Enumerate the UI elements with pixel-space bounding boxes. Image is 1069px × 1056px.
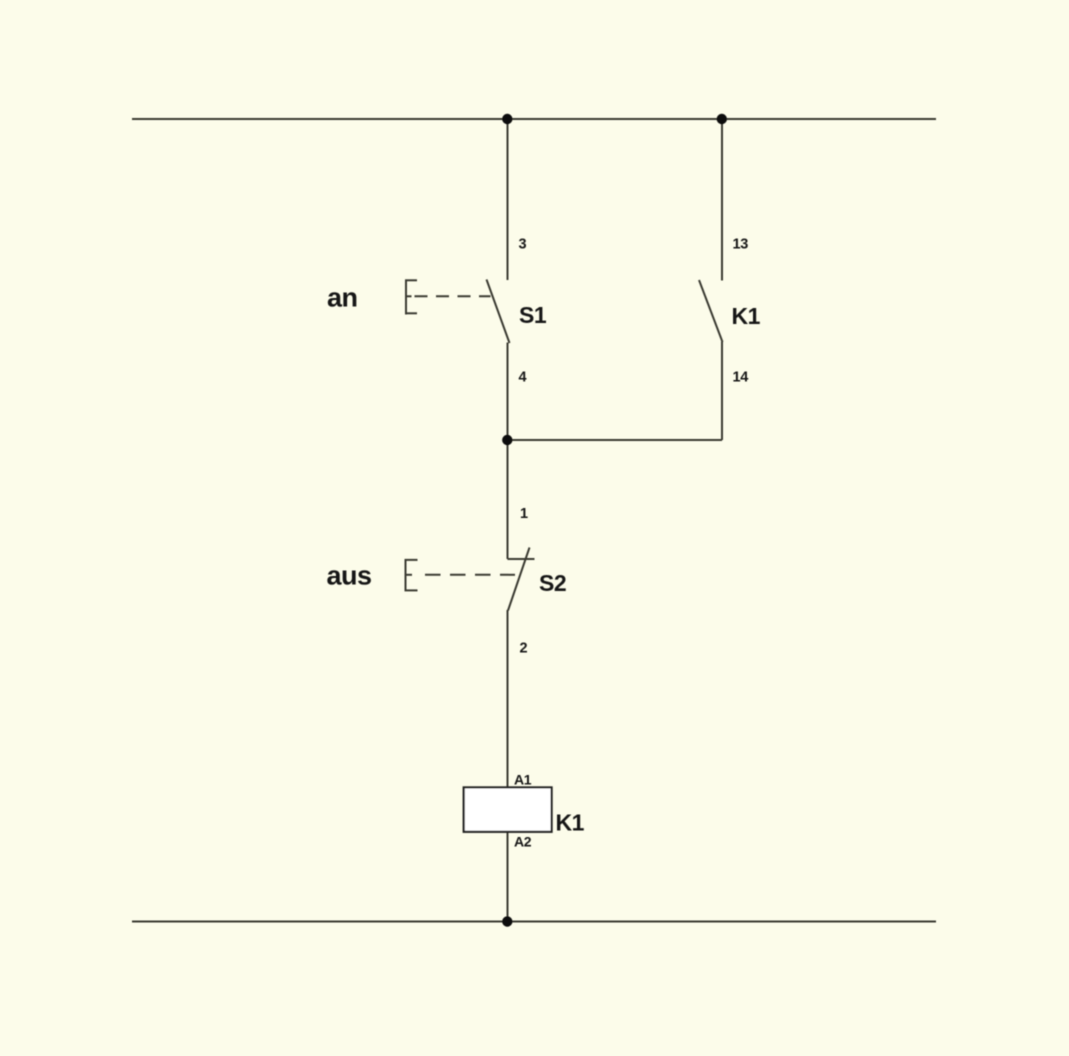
wire: node down to S2 pin 1: [507, 440, 509, 559]
svg-text:3: 3: [519, 237, 527, 253]
svg-text:A1: A1: [514, 772, 532, 788]
node: junction S1+K1 branches: [502, 435, 512, 445]
wire: S2 pin 2 down to coil A1: [507, 610, 509, 788]
svg-text:14: 14: [733, 370, 749, 386]
svg-text:2: 2: [520, 641, 528, 657]
node: junction top rail / K1 branch: [717, 114, 727, 124]
svg-text:aus: aus: [327, 561, 372, 591]
node: junction bottom rail: [502, 916, 512, 926]
svg-text:K1: K1: [556, 810, 585, 836]
wire: S1 pin 4 down to node: [507, 343, 509, 441]
power rail N (bottom): [132, 921, 936, 923]
pushbutton S1 contact blade: [487, 280, 510, 344]
power rail L1 (top): [132, 118, 936, 120]
svg-text:S2: S2: [539, 570, 566, 596]
contact K1 blade: [699, 280, 723, 342]
coil K1 body: [464, 787, 552, 831]
wire: K1 pin 14 down to horizontal tie: [721, 342, 723, 441]
actuator dashed link S1: [415, 295, 491, 297]
svg-text:13: 13: [733, 237, 749, 253]
svg-text:A2: A2: [514, 834, 532, 850]
actuator bracket of S2: [405, 559, 418, 591]
wire: top rail to S1 pin 3: [507, 119, 509, 280]
actuator bracket of S1: [405, 280, 417, 315]
svg-text:1: 1: [520, 506, 528, 522]
svg-text:an: an: [327, 283, 358, 313]
svg-text:S1: S1: [519, 302, 547, 328]
node: junction top rail / S1 branch: [502, 114, 512, 124]
pushbutton S2 contact blade (NC): [508, 548, 530, 611]
svg-text:4: 4: [519, 370, 527, 386]
svg-text:K1: K1: [732, 303, 761, 329]
wire: top rail to K1 contact pin 13: [721, 119, 723, 281]
actuator dashed link S2: [425, 574, 515, 576]
wire: horizontal tie from K1 branch to node: [508, 439, 723, 441]
wire: coil A2 down to bottom rail: [507, 832, 509, 922]
S2 contact seat tick: [508, 558, 535, 560]
